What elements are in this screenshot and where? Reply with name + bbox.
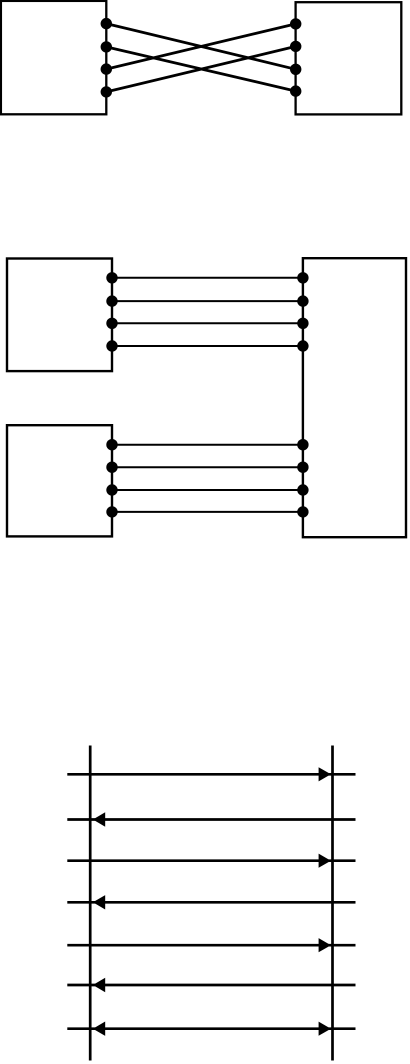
- port D4: [106, 506, 117, 517]
- message 5 line (right): [67, 944, 355, 947]
- message 6 line (left): [67, 984, 355, 987]
- port E3: [297, 318, 308, 329]
- port B3: [290, 64, 301, 75]
- wire A3-B1: [106, 24, 295, 69]
- port E1: [297, 272, 308, 283]
- port E8: [297, 506, 308, 517]
- port D2: [106, 462, 117, 473]
- wire A2-B4: [106, 47, 295, 91]
- port D3: [106, 484, 117, 495]
- port C1: [106, 272, 117, 283]
- port C3: [106, 318, 117, 329]
- wire D3-E7: [112, 489, 303, 491]
- port C2: [106, 295, 117, 306]
- port C4: [106, 340, 117, 351]
- box B (top-right switch): [296, 2, 402, 114]
- message 6 arrowhead left: [93, 978, 105, 992]
- message 1 line (right): [67, 773, 355, 776]
- port A4: [101, 86, 112, 97]
- port E2: [297, 295, 308, 306]
- message 7 arrowhead right: [319, 1022, 331, 1036]
- message 4 arrowhead left: [93, 895, 105, 909]
- port B4: [290, 85, 301, 96]
- wire A1-B3: [106, 24, 295, 70]
- port E5: [297, 439, 308, 450]
- message 3 line (right): [67, 859, 355, 862]
- port A2: [101, 41, 112, 52]
- message 5 arrowhead right: [319, 938, 331, 952]
- box E (middle right node): [303, 258, 406, 537]
- timeline right: [331, 746, 334, 1061]
- message 4 line (left): [67, 901, 355, 904]
- wire C4-E4: [112, 345, 303, 347]
- port E6: [297, 462, 308, 473]
- box C (middle upper-left node): [7, 259, 112, 372]
- message 2 arrowhead left: [93, 812, 105, 826]
- box D (middle lower-left node): [7, 425, 112, 536]
- port E4: [297, 340, 308, 351]
- port E7: [297, 484, 308, 495]
- wire A4-B2: [106, 46, 295, 92]
- port A3: [101, 63, 112, 74]
- message 7 arrowhead left: [93, 1022, 105, 1036]
- port A1: [101, 18, 112, 29]
- box A (top-left switch): [1, 1, 106, 114]
- wire D1-E5: [112, 444, 303, 446]
- message 2 line (left): [67, 818, 355, 821]
- port D1: [106, 439, 117, 450]
- timeline left: [89, 746, 92, 1061]
- message 1 arrowhead right: [319, 767, 331, 781]
- message 7 line (both directions): [67, 1027, 355, 1030]
- message 3 arrowhead right: [319, 854, 331, 868]
- wire D4-E8: [112, 511, 303, 513]
- wire C1-E1: [112, 277, 303, 279]
- wire C3-E3: [112, 322, 303, 324]
- port B2: [290, 41, 301, 52]
- wire C2-E2: [112, 300, 303, 302]
- wire D2-E6: [112, 466, 303, 468]
- port B1: [290, 18, 301, 29]
